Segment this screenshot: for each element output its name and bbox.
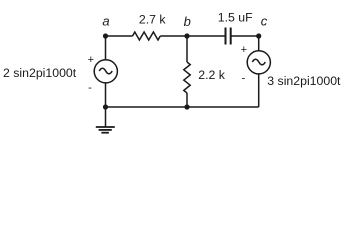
node a xyxy=(103,33,108,38)
voltage source V2 sine symbol xyxy=(252,59,265,65)
svg-text:c: c xyxy=(261,13,268,28)
voltage source V1 circle xyxy=(94,60,117,83)
svg-text:a: a xyxy=(102,13,109,28)
voltage source V2 circle xyxy=(247,51,270,74)
svg-text:-: - xyxy=(241,73,245,85)
wire capacitor C1 to node c xyxy=(231,35,259,37)
svg-text:+: + xyxy=(241,44,247,56)
svg-text:2.2 k: 2.2 k xyxy=(198,68,226,82)
svg-text:+: + xyxy=(88,54,94,66)
wire resistor R1 to node b xyxy=(160,35,187,37)
wire node a down to source V1 xyxy=(105,36,107,60)
svg-text:1.5 uF: 1.5 uF xyxy=(218,11,253,25)
bottom rail wire xyxy=(106,106,259,108)
wire node a to resistor R1 xyxy=(106,35,133,37)
svg-text:2 sin2pi1000t: 2 sin2pi1000t xyxy=(3,66,77,80)
ground bars xyxy=(96,127,115,133)
wire node b down to resistor R2 xyxy=(186,36,188,62)
voltage source V1 sine symbol xyxy=(99,68,112,74)
svg-text:-: - xyxy=(88,82,92,94)
wire node b to capacitor C1 xyxy=(187,35,225,37)
wire resistor R2 down to bottom rail xyxy=(186,93,188,107)
ground stem xyxy=(105,107,107,127)
capacitor C1 1.5 uF xyxy=(226,28,231,45)
wire source V1 down to bottom rail xyxy=(105,83,107,107)
node c xyxy=(256,33,261,38)
node b xyxy=(184,33,189,38)
wire source V2 down to bottom rail xyxy=(258,74,260,107)
bottom junction left xyxy=(103,104,108,109)
svg-text:2.7 k: 2.7 k xyxy=(139,13,167,27)
resistor R2 2.2 k xyxy=(184,62,190,93)
svg-text:3 sin2pi1000t: 3 sin2pi1000t xyxy=(267,74,341,88)
svg-text:b: b xyxy=(184,14,191,29)
wire node c down to source V2 xyxy=(258,36,260,51)
resistor R1 2.7 k xyxy=(133,32,161,40)
bottom junction middle xyxy=(184,104,189,109)
